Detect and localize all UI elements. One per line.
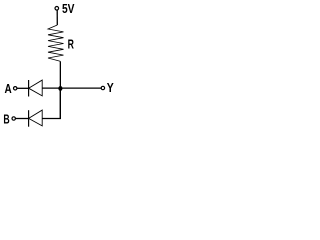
terminal Y (open circle): [101, 86, 104, 89]
diode D2 (input B): anode triangle: [29, 110, 43, 126]
svg-text:A: A: [5, 81, 12, 96]
terminal 5V (open circle): [55, 7, 59, 11]
resistor R: [48, 25, 64, 61]
wire: node to terminal Y: [60, 87, 101, 89]
terminal B (open circle): [12, 117, 15, 120]
wire: terminal A to diode D1 cathode: [17, 87, 29, 89]
svg-text:R: R: [68, 37, 74, 52]
diode D1 (input A): anode triangle: [29, 80, 43, 96]
svg-text:B: B: [3, 112, 9, 127]
wire: 5V terminal to resistor top: [56, 10, 58, 25]
diode D2 (input B): cathode bar: [28, 110, 30, 127]
wire: diode D2 anode right then up to node: [42, 88, 60, 118]
svg-text:5V: 5V: [62, 1, 75, 16]
svg-text:Y: Y: [107, 80, 114, 95]
wire: resistor bottom through node down to B branch (vertical trunk): [59, 61, 61, 118]
wire: diode D1 anode to node: [42, 87, 60, 89]
wire: terminal B to diode D2 cathode: [15, 118, 28, 120]
terminal A (open circle): [14, 87, 17, 90]
diode D1 (input A): cathode bar: [28, 80, 30, 97]
node: diode-resistor junction (solder dot): [58, 86, 62, 91]
